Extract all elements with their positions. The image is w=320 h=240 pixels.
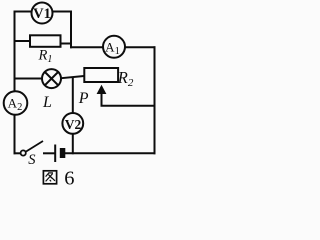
wire <box>72 78 74 154</box>
svg-text:S: S <box>28 152 36 168</box>
voltmeter V1 <box>32 3 53 24</box>
svg-text:V2: V2 <box>65 117 82 132</box>
wiper arrow P <box>97 85 107 94</box>
svg-text:V1: V1 <box>33 6 51 22</box>
lamp L <box>42 69 61 88</box>
wire <box>14 12 16 154</box>
svg-text:P: P <box>78 90 89 107</box>
svg-text:L: L <box>42 94 52 111</box>
resistor R2 <box>84 68 118 82</box>
battery <box>55 145 65 163</box>
wire <box>154 47 156 153</box>
wire <box>61 43 72 45</box>
caption 图 <box>43 171 56 184</box>
wire <box>66 152 155 154</box>
wire <box>15 40 31 42</box>
svg-text:6: 6 <box>64 167 74 188</box>
wire <box>61 76 84 78</box>
wire <box>15 12 72 48</box>
wire <box>71 46 155 48</box>
switch S <box>21 141 43 156</box>
wire <box>15 152 21 154</box>
resistor R1 <box>30 35 61 47</box>
wire <box>44 152 54 154</box>
ammeter A1 <box>103 36 125 58</box>
wire <box>102 93 155 106</box>
ammeter A2 <box>4 91 28 115</box>
wire <box>15 78 62 80</box>
voltmeter V2 <box>62 113 83 134</box>
